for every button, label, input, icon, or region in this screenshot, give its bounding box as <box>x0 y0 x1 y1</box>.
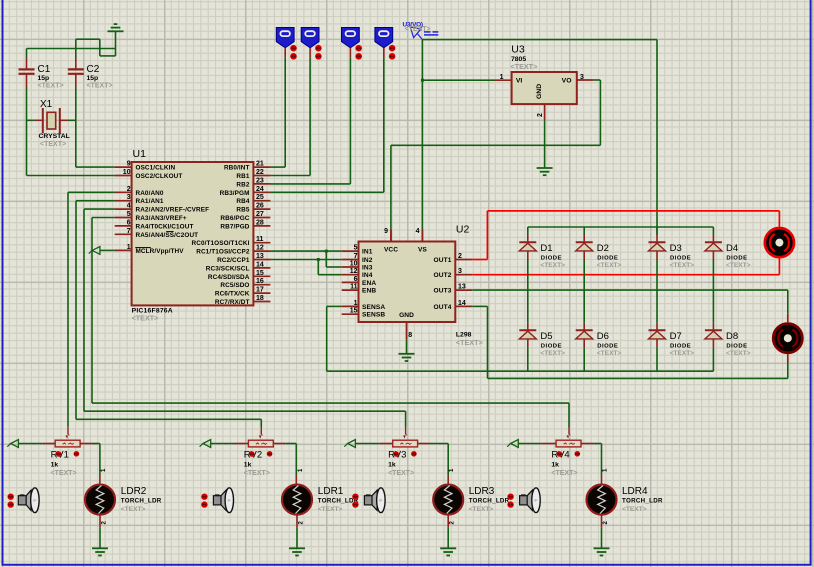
svg-text:OUT2: OUT2 <box>434 272 452 279</box>
svg-text:D7: D7 <box>670 331 682 342</box>
svg-text:RA4/T0CKI/C1OUT: RA4/T0CKI/C1OUT <box>136 223 194 230</box>
svg-text:11: 11 <box>350 284 358 291</box>
wire OUT4 to motor M2 return <box>472 306 788 378</box>
svg-text:VS: VS <box>418 247 427 254</box>
svg-text:18: 18 <box>256 295 264 302</box>
svg-text:IN1: IN1 <box>362 249 373 256</box>
wire RA1 to RV2 wiper <box>76 201 261 435</box>
wire RV3 left lead <box>355 443 392 445</box>
resistor RV4 (pot) <box>556 434 581 447</box>
svg-text:23: 23 <box>256 177 264 184</box>
svg-text:D2: D2 <box>597 243 609 254</box>
svg-text:DIODE: DIODE <box>541 343 562 349</box>
wire OUT1 to motor M1 (red) <box>472 211 779 260</box>
svg-text:12: 12 <box>350 268 358 275</box>
diode D7 <box>649 330 666 339</box>
ground (LDR4) <box>594 548 610 555</box>
svg-text:<TEXT>: <TEXT> <box>244 470 270 477</box>
svg-text:15p: 15p <box>87 75 99 82</box>
terminal T2 (power) <box>301 28 322 60</box>
svg-text:RC2/CCP1: RC2/CCP1 <box>217 257 250 264</box>
svg-text:<TEXT>: <TEXT> <box>318 506 343 513</box>
svg-text:OUT4: OUT4 <box>434 304 452 311</box>
svg-text:OUT3: OUT3 <box>434 288 452 295</box>
svg-text:5: 5 <box>127 211 131 218</box>
wire OUT2 to motor M1 return (red) <box>472 258 779 274</box>
ground (top, rotated) <box>108 24 124 48</box>
svg-text:LDR3: LDR3 <box>469 486 495 497</box>
svg-text:RC5/SDO: RC5/SDO <box>220 282 249 289</box>
svg-text:12: 12 <box>256 245 264 252</box>
U1 left pin names <box>135 165 209 255</box>
driver U2 body <box>359 242 456 323</box>
svg-text:<TEXT>: <TEXT> <box>726 350 751 357</box>
wire C1 to X1 left / U1 pin10 <box>27 87 115 176</box>
capacitor C2 <box>68 57 84 87</box>
ground (LDR1) <box>289 548 305 555</box>
svg-text:9: 9 <box>384 228 388 235</box>
svg-text:D8: D8 <box>726 331 738 342</box>
svg-text:16: 16 <box>256 278 264 285</box>
svg-text:9: 9 <box>127 161 131 168</box>
wire D6 bottom lead <box>583 339 585 371</box>
svg-text:C1: C1 <box>38 64 51 75</box>
wire SENSA to diode return rail <box>327 306 714 371</box>
svg-text:6: 6 <box>127 219 131 226</box>
U2 right pin numbers <box>458 253 466 307</box>
wire D7 bottom lead <box>656 339 658 371</box>
U2 top pin stubs <box>391 229 422 241</box>
svg-text:5: 5 <box>354 245 358 252</box>
svg-text:D1: D1 <box>540 243 552 254</box>
wire T3 to U1 pin23 <box>270 57 350 184</box>
junction IN2/IN4 <box>317 258 320 261</box>
svg-text:1k: 1k <box>51 462 59 469</box>
svg-text:<TEXT>: <TEXT> <box>597 350 622 357</box>
svg-text:<TEXT>: <TEXT> <box>726 262 751 269</box>
svg-text:1k: 1k <box>244 462 252 469</box>
svg-text:22: 22 <box>256 169 264 176</box>
svg-text:OSC2/CLKOUT: OSC2/CLKOUT <box>136 173 183 180</box>
svg-text:RB1: RB1 <box>236 173 249 180</box>
svg-text:7: 7 <box>127 228 131 235</box>
wire RV1 right lead to LDR2 <box>80 444 100 485</box>
svg-text:13: 13 <box>256 253 264 260</box>
svg-text:<TEXT>: <TEXT> <box>121 506 146 513</box>
svg-text:RA3/AN3/VREF+: RA3/AN3/VREF+ <box>136 215 187 222</box>
wire D2 to D6 <box>583 251 585 329</box>
diode D6 <box>576 330 593 339</box>
svg-text:CRYSTAL: CRYSTAL <box>39 133 70 140</box>
svg-text:<TEXT>: <TEXT> <box>405 26 431 33</box>
svg-text:IN2: IN2 <box>362 257 373 264</box>
svg-text:13: 13 <box>458 284 466 291</box>
svg-text:GND: GND <box>399 312 414 319</box>
terminal T1 (power) <box>276 28 297 60</box>
wire diode rail (D1-D4 tops) <box>528 226 714 228</box>
capacitor C1 <box>19 49 35 88</box>
wire RV4 right lead to LDR4 <box>581 444 602 485</box>
svg-text:OSC1/CLKIN: OSC1/CLKIN <box>136 165 176 172</box>
U2 right pin names <box>434 257 452 311</box>
svg-text:RB3/PGM: RB3/PGM <box>220 190 250 197</box>
svg-text:RC1/T1OSI/CCP2: RC1/T1OSI/CCP2 <box>196 249 250 256</box>
svg-text:DIODE: DIODE <box>541 255 562 261</box>
wire LDR1 to ground <box>296 515 298 549</box>
terminal T4 (power) <box>375 28 396 60</box>
svg-text:RB4: RB4 <box>236 198 249 205</box>
node RV3 left arrow <box>344 440 355 448</box>
svg-text:RA0/AN0: RA0/AN0 <box>136 190 164 197</box>
svg-text:14: 14 <box>256 261 264 268</box>
svg-text:<TEXT>: <TEXT> <box>456 338 483 347</box>
svg-text:1k: 1k <box>551 462 559 469</box>
wire LDR2 to ground <box>99 515 101 549</box>
wire D1 top lead <box>527 227 529 241</box>
ground (U3) <box>537 168 553 175</box>
svg-text:U1: U1 <box>133 148 147 160</box>
wire RC1 to IN1 <box>270 250 341 252</box>
probe U3(VO) <box>403 22 439 40</box>
svg-text:DIODE: DIODE <box>597 343 618 349</box>
svg-text:1k: 1k <box>388 462 396 469</box>
svg-text:LDR4: LDR4 <box>622 486 648 497</box>
svg-text:MCLR/Vpp/THV: MCLR/Vpp/THV <box>136 248 185 255</box>
U3 GND pin to ground <box>544 104 546 168</box>
RV3 red markers <box>393 451 416 457</box>
LDR LDR2 <box>85 485 115 515</box>
node RV1 left arrow <box>7 440 18 448</box>
svg-text:X1: X1 <box>40 99 53 110</box>
U2 left pin numbers <box>350 245 358 315</box>
svg-text:<TEXT>: <TEXT> <box>540 262 565 269</box>
torch for LDR2 <box>8 488 40 513</box>
svg-text:RB7/PGD: RB7/PGD <box>220 223 249 230</box>
wire RV1 left lead <box>18 443 55 445</box>
ground (LDR2) <box>92 548 108 555</box>
svg-text:U2: U2 <box>456 224 470 236</box>
svg-text:DIODE: DIODE <box>670 343 691 349</box>
torch for LDR3 <box>352 488 385 513</box>
svg-text:RB6/PGC: RB6/PGC <box>220 215 249 222</box>
svg-text:RC4/SDI/SDA: RC4/SDI/SDA <box>208 274 250 281</box>
svg-text:RA5/AN4/SS/C2OUT: RA5/AN4/SS/C2OUT <box>136 232 199 239</box>
LDR LDR1 <box>282 485 312 515</box>
svg-text:DIODE: DIODE <box>726 343 747 349</box>
U2 top pin numbers <box>384 228 420 235</box>
wire VI <box>422 79 511 81</box>
svg-text:10: 10 <box>123 169 131 176</box>
svg-text:LDR1: LDR1 <box>318 486 344 497</box>
torch for LDR4 <box>507 488 540 513</box>
resistor RV3 (pot) <box>393 434 418 447</box>
U1 right pin stubs <box>253 167 270 301</box>
svg-text:D5: D5 <box>540 331 552 342</box>
svg-text:D6: D6 <box>597 331 609 342</box>
wire D4 top lead <box>712 227 714 241</box>
svg-text:RC0/T1OSO/T1CKI: RC0/T1OSO/T1CKI <box>192 240 250 247</box>
svg-text:4: 4 <box>416 228 420 235</box>
svg-text:ENB: ENB <box>362 288 376 295</box>
U2 top pin names <box>384 247 427 254</box>
junction VI <box>421 79 424 82</box>
svg-text:8: 8 <box>408 332 412 339</box>
svg-text:TORCH_LDR: TORCH_LDR <box>622 498 663 505</box>
svg-text:ENA: ENA <box>362 280 376 287</box>
wire LDR4 to ground <box>601 515 603 549</box>
svg-text:28: 28 <box>256 219 264 226</box>
svg-text:SENSA: SENSA <box>362 304 385 311</box>
wire D1 to D5 <box>527 251 529 329</box>
resistor RV2 (pot) <box>248 434 273 447</box>
diode D5 <box>519 330 536 339</box>
wire T4 to U1 pin24 <box>270 57 383 192</box>
svg-text:17: 17 <box>256 287 264 294</box>
svg-text:3: 3 <box>458 268 462 275</box>
svg-text:14: 14 <box>458 300 466 307</box>
svg-text:2: 2 <box>537 113 544 117</box>
diode D8 <box>705 330 722 339</box>
svg-text:DIODE: DIODE <box>597 255 618 261</box>
U2 GND pin <box>406 322 408 354</box>
RV4 red markers <box>557 451 580 457</box>
svg-text:<TEXT>: <TEXT> <box>597 262 622 269</box>
op-amp U1 body <box>132 162 254 305</box>
svg-text:2: 2 <box>458 253 462 260</box>
U3 pin numbers <box>500 74 584 117</box>
wire T2 to U1 pin22 <box>270 57 310 175</box>
wire VS supply <box>421 40 423 242</box>
U3 pin names <box>516 78 572 100</box>
svg-text:VCC: VCC <box>384 247 398 254</box>
svg-text:OUT1: OUT1 <box>434 257 452 264</box>
wire D2 top lead <box>583 227 585 241</box>
svg-text:6: 6 <box>354 276 358 283</box>
wire LDR3 to ground <box>447 515 449 549</box>
svg-text:VI: VI <box>516 78 523 85</box>
svg-text:21: 21 <box>256 161 264 168</box>
svg-text:RB0/INT: RB0/INT <box>224 165 250 172</box>
svg-text:<TEXT>: <TEXT> <box>51 470 77 477</box>
regulator U3 body <box>512 72 577 104</box>
svg-text:RB2: RB2 <box>236 181 249 188</box>
svg-text:10: 10 <box>350 261 358 268</box>
svg-text:<TEXT>: <TEXT> <box>540 350 565 357</box>
wire RV4 left lead <box>518 443 556 445</box>
wire RA0 to RV1 wiper <box>68 192 115 434</box>
svg-text:24: 24 <box>256 186 264 193</box>
svg-text:C2: C2 <box>87 64 100 75</box>
svg-text:D3: D3 <box>670 243 682 254</box>
svg-text:1: 1 <box>500 74 504 81</box>
wire D3 top lead <box>656 227 658 241</box>
diode D1 <box>519 242 536 251</box>
crystal X1 <box>27 108 76 133</box>
U2 right pin stubs <box>455 260 472 307</box>
diode D3 <box>649 242 666 251</box>
svg-text:<TEXT>: <TEXT> <box>38 83 64 90</box>
svg-text:DIODE: DIODE <box>670 255 691 261</box>
wire RA3 to RV4 wiper <box>92 218 569 435</box>
svg-text:GND: GND <box>536 84 543 99</box>
wire VO to U2 VCC (5V) <box>391 80 601 242</box>
wire D8 bottom lead <box>712 339 714 371</box>
U2 left pin stubs <box>342 251 359 314</box>
svg-text:D4: D4 <box>726 243 738 254</box>
svg-text:RC6/TX/CK: RC6/TX/CK <box>215 291 250 298</box>
wire D3 to D7 <box>656 251 658 329</box>
svg-text:15: 15 <box>350 308 358 315</box>
svg-text:15p: 15p <box>38 75 50 82</box>
U1 left pin numbers <box>123 161 131 251</box>
svg-text:DIODE: DIODE <box>726 255 747 261</box>
motor M1 <box>765 228 794 257</box>
svg-text:LDR2: LDR2 <box>121 486 147 497</box>
svg-text:<TEXT>: <TEXT> <box>670 350 695 357</box>
svg-text:TORCH_LDR: TORCH_LDR <box>469 498 510 505</box>
wire RA2 to RV3 wiper <box>84 209 406 434</box>
U1 right pin numbers <box>256 161 264 302</box>
resistor RV1 (pot) <box>55 434 80 447</box>
LDR LDR4 <box>587 485 617 515</box>
svg-text:VO: VO <box>562 78 572 85</box>
svg-text:RB5: RB5 <box>236 207 249 214</box>
svg-text:<TEXT>: <TEXT> <box>388 470 414 477</box>
wire RV2 left lead <box>211 443 249 445</box>
svg-text:<TEXT>: <TEXT> <box>132 314 159 323</box>
svg-text:<TEXT>: <TEXT> <box>87 83 113 90</box>
svg-text:11: 11 <box>256 236 264 243</box>
wire branch to IN3 <box>326 251 341 267</box>
RV2 red markers <box>249 451 272 457</box>
wire C2 to X1 right / U1 pin9 <box>76 87 115 167</box>
U1 left pin stubs <box>115 167 132 250</box>
svg-text:RC7/RX/DT: RC7/RX/DT <box>215 299 250 306</box>
svg-text:4: 4 <box>127 203 131 210</box>
svg-text:<TEXT>: <TEXT> <box>670 262 695 269</box>
diode D2 <box>576 242 593 251</box>
U2 left pin names <box>362 249 385 319</box>
wire D5 bottom lead <box>527 339 529 371</box>
wire OUT3 to motor M2 <box>472 290 788 322</box>
RV1 red markers <box>56 451 79 457</box>
node RV2 left arrow <box>200 440 211 448</box>
torch for LDR1 <box>201 488 233 513</box>
svg-text:RC3/SCK/SCL: RC3/SCK/SCL <box>206 265 250 272</box>
ground (U2) <box>399 354 415 361</box>
svg-text:27: 27 <box>256 211 264 218</box>
svg-text:3: 3 <box>127 194 131 201</box>
svg-text:<TEXT>: <TEXT> <box>551 470 577 477</box>
junction IN1/IN3 <box>325 250 328 253</box>
wire RC2 to IN2 <box>270 259 341 261</box>
svg-text:IN3: IN3 <box>362 265 373 272</box>
svg-text:2: 2 <box>127 186 131 193</box>
svg-text:IN4: IN4 <box>362 272 373 279</box>
svg-text:U3: U3 <box>511 44 525 56</box>
svg-text:RA2/AN2/VREF-/CVREF: RA2/AN2/VREF-/CVREF <box>136 207 210 214</box>
svg-text:26: 26 <box>256 203 264 210</box>
wire 12V rail to D3 column <box>422 40 657 235</box>
ground (LDR3) <box>440 548 456 555</box>
wire RV2 right lead to LDR1 <box>273 444 296 485</box>
svg-text:25: 25 <box>256 194 264 201</box>
svg-text:<TEXT>: <TEXT> <box>511 62 538 71</box>
diode D4 <box>705 242 722 251</box>
svg-text:7: 7 <box>354 253 358 260</box>
svg-text:TORCH_LDR: TORCH_LDR <box>121 498 162 505</box>
U1 right pin names <box>192 165 250 306</box>
svg-text:<TEXT>: <TEXT> <box>40 141 66 148</box>
svg-text:<TEXT>: <TEXT> <box>469 506 494 513</box>
svg-text:<TEXT>: <TEXT> <box>622 506 647 513</box>
motor M2 <box>773 324 802 353</box>
svg-text:RA1/AN1: RA1/AN1 <box>136 198 164 205</box>
wire C1/C2 top rail <box>27 39 116 57</box>
svg-text:1: 1 <box>354 300 358 307</box>
wire RV3 right lead to LDR3 <box>418 444 449 485</box>
node MCLR input arrow <box>89 247 115 255</box>
wire branch to IN4 <box>318 260 341 275</box>
terminal T3 (power) <box>342 28 363 60</box>
wire D4 to D8 <box>712 251 714 329</box>
svg-text:15: 15 <box>256 270 264 277</box>
svg-text:1: 1 <box>127 244 131 251</box>
node RV4 left arrow <box>507 440 518 448</box>
LDR LDR3 <box>433 485 463 515</box>
wire T1 to U1 pin21 <box>270 57 285 167</box>
svg-text:SENSB: SENSB <box>362 312 385 319</box>
